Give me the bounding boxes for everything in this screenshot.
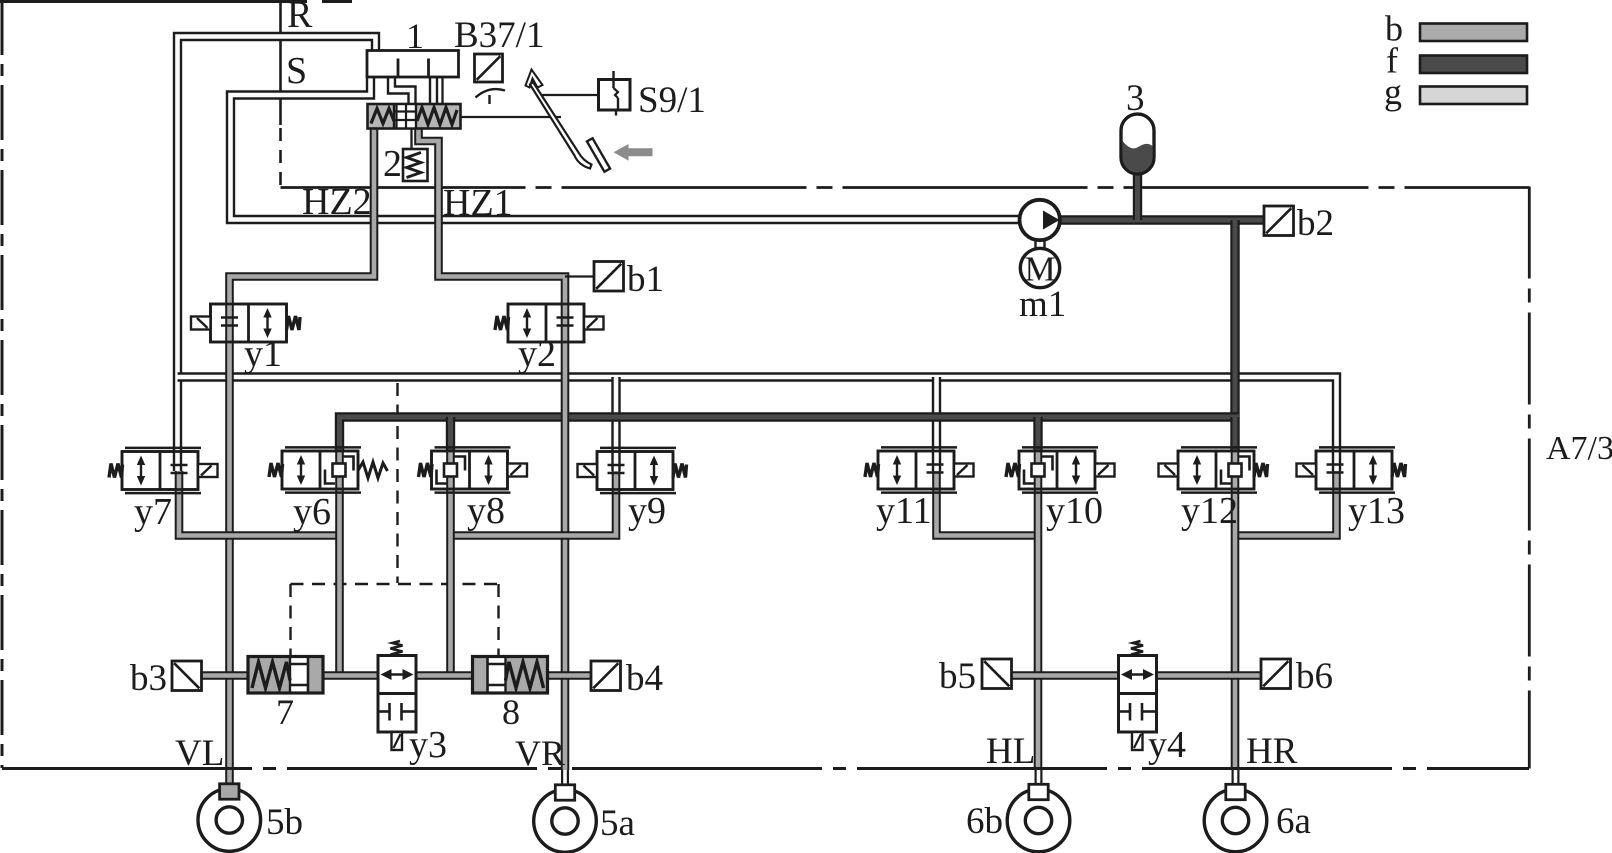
svg-text:S: S — [286, 50, 307, 92]
svg-text:y1: y1 — [244, 333, 282, 375]
svg-text:6b: 6b — [966, 801, 1003, 842]
svg-text:8: 8 — [502, 692, 520, 732]
svg-text:R: R — [287, 0, 313, 36]
svg-text:y12: y12 — [1181, 490, 1238, 532]
svg-text:HR: HR — [1246, 731, 1298, 772]
svg-text:y13: y13 — [1348, 490, 1405, 532]
svg-text:y8: y8 — [467, 490, 505, 532]
svg-text:y2: y2 — [518, 333, 556, 375]
svg-text:b2: b2 — [1297, 203, 1334, 244]
svg-text:VL: VL — [175, 733, 224, 774]
svg-text:3: 3 — [1126, 78, 1145, 119]
svg-text:A7/3: A7/3 — [1546, 430, 1612, 467]
svg-text:M: M — [1024, 250, 1055, 289]
svg-text:b5: b5 — [939, 656, 976, 697]
svg-text:b1: b1 — [627, 259, 664, 300]
svg-text:b3: b3 — [130, 658, 167, 699]
svg-text:S9/1: S9/1 — [638, 80, 706, 121]
svg-text:y7: y7 — [134, 491, 172, 533]
svg-text:6a: 6a — [1276, 801, 1311, 842]
svg-text:5b: 5b — [266, 802, 303, 843]
svg-text:1: 1 — [406, 16, 424, 56]
svg-text:g: g — [1384, 72, 1402, 112]
svg-text:y6: y6 — [293, 491, 331, 533]
svg-text:HZ1: HZ1 — [443, 182, 513, 224]
svg-text:y9: y9 — [628, 490, 666, 532]
svg-text:b6: b6 — [1296, 656, 1333, 697]
svg-text:y4: y4 — [1148, 724, 1186, 766]
svg-text:HL: HL — [986, 731, 1035, 772]
svg-text:2: 2 — [383, 143, 402, 185]
svg-text:y10: y10 — [1046, 490, 1103, 532]
svg-text:y3: y3 — [409, 724, 447, 766]
svg-text:B37/1: B37/1 — [454, 15, 544, 56]
svg-text:HZ2: HZ2 — [302, 181, 372, 223]
svg-text:b4: b4 — [626, 658, 663, 699]
svg-text:m1: m1 — [1019, 284, 1066, 325]
svg-text:VR: VR — [515, 733, 565, 773]
svg-text:y11: y11 — [876, 490, 932, 532]
svg-text:5a: 5a — [600, 803, 635, 844]
svg-text:7: 7 — [276, 692, 294, 732]
